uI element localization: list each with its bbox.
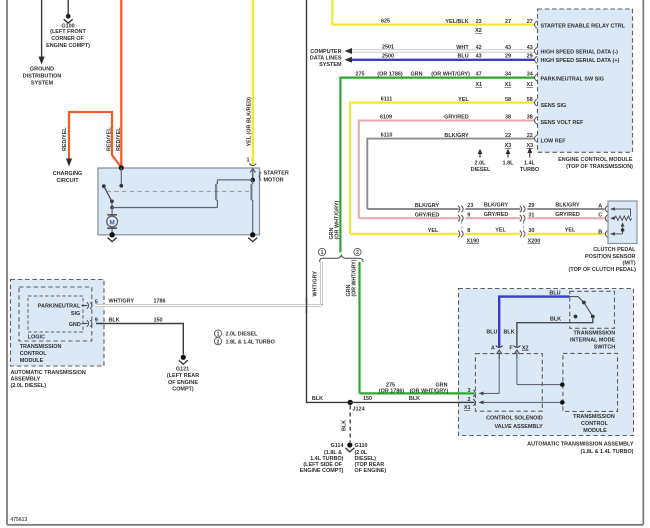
svg-text:X2: X2	[475, 28, 482, 34]
pin 3 connector	[467, 388, 475, 397]
svg-text:CHARGING: CHARGING	[53, 171, 83, 177]
svg-text:(LEFT REAR: (LEFT REAR	[167, 373, 199, 379]
wire GRY/RED mid	[466, 217, 521, 219]
svg-text:ENGINE COMPT): ENGINE COMPT)	[46, 43, 90, 49]
connector X200 pin 30	[520, 231, 525, 238]
pin 2 connector	[464, 397, 475, 411]
svg-text:2500: 2500	[382, 53, 394, 59]
solenoid mechanical dashed link	[107, 190, 250, 192]
svg-text:X2: X2	[522, 345, 529, 351]
svg-text:275: 275	[355, 72, 364, 78]
logic box	[28, 296, 83, 332]
connector fork pin 1	[249, 164, 256, 166]
svg-text:42: 42	[476, 45, 482, 51]
wire RED/YEL main vertical	[120, 0, 122, 168]
column marker arrow 1.4L TURBO	[520, 147, 539, 173]
svg-text:34: 34	[527, 72, 533, 78]
wire to G100	[67, 0, 69, 15]
svg-text:GRY/RED: GRY/RED	[484, 212, 509, 218]
ground G121	[179, 355, 188, 365]
control solenoid valve assembly box	[475, 354, 542, 412]
wire 275 GRN park/neutral sw sig	[340, 78, 535, 253]
svg-text:DATA LINES: DATA LINES	[310, 55, 342, 61]
svg-text:SENS SIG: SENS SIG	[541, 103, 567, 109]
svg-text:BLU: BLU	[458, 54, 469, 60]
label STARTER MOTOR	[259, 171, 289, 184]
svg-text:SIG: SIG	[71, 311, 80, 317]
starter switch blade	[102, 184, 114, 209]
connector arc row1	[535, 21, 538, 28]
svg-text:TURBO: TURBO	[520, 167, 539, 173]
svg-text:58: 58	[527, 97, 533, 103]
svg-text:(M/T): (M/T)	[623, 260, 636, 266]
connector X200 pin 31	[520, 215, 525, 222]
label G114	[300, 443, 344, 474]
svg-text:STARTER ENABLE RELAY CTRL: STARTER ENABLE RELAY CTRL	[541, 24, 626, 30]
solenoid internal wire pin2 to TCM	[479, 400, 565, 405]
ground at solenoid	[248, 232, 257, 242]
svg-text:YEL: YEL	[495, 228, 506, 234]
ECM box (ENGINE CONTROL MODULE)	[538, 9, 633, 152]
connector X190 pin 23	[458, 206, 463, 213]
connector X200 pin 29	[520, 206, 525, 213]
svg-text:27: 27	[527, 19, 533, 25]
svg-text:{: {	[259, 171, 262, 181]
connector arrow into starter pin 1	[250, 169, 255, 180]
svg-text:X3: X3	[505, 143, 512, 149]
wire 625 YEL/BLK starter enable	[332, 0, 535, 25]
svg-text:TRANSMISSION: TRANSMISSION	[573, 331, 615, 337]
connector X190 pin 8	[458, 231, 463, 238]
svg-text:TRANSMISSION: TRANSMISSION	[573, 414, 615, 420]
connector link dashed X200	[523, 222, 525, 231]
automatic transmission assembly (1.8L/1.4L) box	[459, 289, 634, 436]
svg-text:J124: J124	[353, 406, 365, 412]
wire YEL (OR BLK/RED) to starter	[252, 0, 254, 165]
wire GRN vertical below brace	[358, 262, 360, 393]
svg-text:STARTER: STARTER	[264, 171, 289, 177]
wire 6111 YEL sens sig	[350, 103, 535, 234]
node CHARGING CIRCUIT	[53, 171, 83, 184]
svg-text:A: A	[491, 346, 495, 352]
svg-text:G114: G114	[330, 443, 343, 449]
svg-text:VALVE ASSEMBLY: VALVE ASSEMBLY	[494, 424, 543, 430]
wire GRY/RED to pin C	[527, 217, 604, 219]
svg-text:BLU: BLU	[486, 330, 497, 336]
svg-text:COMPT): COMPT)	[172, 387, 194, 393]
pin 5 connector	[82, 300, 98, 309]
svg-text:23: 23	[476, 19, 482, 25]
wire 6109 GRY/RED sens volt ref	[359, 121, 535, 219]
svg-text:GRN: GRN	[410, 72, 422, 78]
svg-text:X200: X200	[528, 238, 541, 244]
svg-text:BLK/GRY: BLK/GRY	[415, 203, 440, 209]
connector X190 pin 9	[458, 215, 463, 222]
svg-text:1.8L: 1.8L	[503, 160, 515, 166]
svg-text:34: 34	[505, 72, 511, 78]
svg-text:(TOP OF TRANSMISSION): (TOP OF TRANSMISSION)	[566, 164, 633, 170]
wire BLU mode switch to pin A	[499, 297, 569, 348]
svg-text:CLUTCH PEDAL: CLUTCH PEDAL	[593, 247, 636, 253]
svg-text:625: 625	[381, 19, 390, 25]
svg-text:GROUND: GROUND	[30, 67, 54, 73]
wire to ground distribution system	[39, 0, 45, 65]
ground G114/G110	[345, 442, 354, 452]
svg-text:POSITION SENSOR: POSITION SENSOR	[585, 254, 636, 260]
wire 150 BLK J124 to pin 2	[350, 401, 474, 403]
svg-text:1.8L & 1.4L TURBO: 1.8L & 1.4L TURBO	[226, 339, 275, 345]
svg-text:TRANSMISSION: TRANSMISSION	[20, 344, 62, 350]
svg-text:ASSEMBLY: ASSEMBLY	[11, 376, 41, 382]
svg-text:6111: 6111	[381, 97, 393, 103]
svg-text:29: 29	[527, 54, 533, 60]
svg-text:BLK: BLK	[409, 396, 420, 402]
svg-text:C: C	[598, 213, 602, 219]
svg-text:BLK: BLK	[504, 330, 515, 336]
svg-text:OF ENGINE): OF ENGINE)	[355, 468, 387, 474]
svg-text:2: 2	[217, 339, 220, 345]
frame right border	[642, 0, 644, 525]
wire GRY/RED to clutch sensor	[359, 217, 459, 219]
svg-text:AUTOMATIC TRANSMISSION ASSEMBL: AUTOMATIC TRANSMISSION ASSEMBLY	[527, 442, 634, 448]
transmission control module box (2.0L)	[19, 287, 92, 341]
svg-text:DIESEL: DIESEL	[471, 167, 491, 173]
svg-text:M: M	[109, 219, 114, 226]
svg-text:RED/YEL: RED/YEL	[62, 127, 68, 151]
solenoid coil 1	[216, 180, 218, 208]
svg-text:CONTROL SOLENOID: CONTROL SOLENOID	[486, 416, 543, 422]
svg-text:(LEFT FRONT: (LEFT FRONT	[50, 29, 86, 35]
svg-text:BLK/GRY: BLK/GRY	[555, 203, 580, 209]
svg-text:SWITCH: SWITCH	[594, 344, 616, 350]
svg-text:WHT/GRY: WHT/GRY	[109, 298, 135, 304]
svg-text:MODULE: MODULE	[583, 428, 607, 434]
svg-text:22: 22	[527, 133, 533, 139]
svg-text:6110: 6110	[381, 133, 393, 139]
column marker arrow 1.8L	[503, 149, 515, 167]
solenoid internal wire from A	[479, 357, 500, 395]
wire 6110 BLK/GRY low ref	[367, 139, 535, 209]
svg-text:GRY/RED: GRY/RED	[415, 212, 440, 218]
transmission control module box (1.8L/1.4L)	[563, 353, 618, 411]
motor M symbol	[107, 208, 118, 235]
connector link dashed X190	[461, 222, 463, 231]
automatic transmission assembly (2.0L diesel) box	[11, 280, 105, 367]
svg-text:150: 150	[363, 396, 372, 402]
svg-text:SYSTEM: SYSTEM	[319, 62, 342, 68]
svg-text:38: 38	[505, 115, 511, 121]
wire BLK/GRY mid	[466, 208, 521, 210]
svg-text:(OR WHT/GRY): (OR WHT/GRY)	[410, 388, 449, 394]
svg-text:29: 29	[505, 54, 511, 60]
svg-text:YEL (OR BLK/RED): YEL (OR BLK/RED)	[247, 97, 253, 147]
label AUTOMATIC TRANSMISSION ASSEMBLY (2.0L DIESEL)	[11, 370, 86, 389]
svg-text:(OR 1786): (OR 1786)	[377, 72, 403, 78]
svg-text:(OR WHT/GRY): (OR WHT/GRY)	[431, 72, 470, 78]
svg-text:2: 2	[356, 250, 359, 256]
label TRANSMISSION CONTROL MODULE	[20, 344, 62, 364]
svg-text:BLK: BLK	[341, 420, 347, 431]
svg-text:2.0L: 2.0L	[475, 160, 487, 166]
junction red wire at starter box	[119, 165, 124, 170]
svg-text:X1: X1	[475, 82, 482, 88]
svg-text:G121: G121	[176, 366, 189, 372]
svg-text:YEL/BLK: YEL/BLK	[445, 19, 468, 25]
svg-text:CIRCUIT: CIRCUIT	[56, 178, 79, 184]
svg-text:1.4L: 1.4L	[524, 160, 536, 166]
pin A connector	[491, 346, 503, 360]
svg-text:2.0L DIESEL: 2.0L DIESEL	[226, 332, 259, 338]
column marker arrow 2.0L DIESEL	[471, 149, 491, 173]
svg-text:YEL: YEL	[565, 228, 576, 234]
svg-text:YEL: YEL	[428, 228, 439, 234]
wire 2501 WHT serial data -	[345, 48, 536, 54]
svg-text:DISTRIBUTION: DISTRIBUTION	[23, 74, 62, 80]
wire RED/YEL branch to charging circuit	[66, 112, 121, 168]
svg-text:6109: 6109	[380, 115, 392, 121]
wire 2500 BLU serial data +	[345, 57, 536, 63]
wire GRN overlay into pin 3	[458, 392, 474, 394]
node COMPUTER DATA LINES SYSTEM	[310, 49, 342, 68]
svg-text:WHT: WHT	[456, 45, 469, 51]
svg-text:58: 58	[505, 97, 511, 103]
svg-text:BLK: BLK	[550, 317, 561, 323]
svg-text:RED/YEL: RED/YEL	[116, 127, 122, 151]
legend 1: 2.0L diesel	[214, 330, 258, 338]
svg-text:INTERNAL MODE: INTERNAL MODE	[570, 338, 616, 344]
svg-text:43: 43	[505, 45, 511, 51]
label PARK/NEUTRAL SIG	[38, 304, 81, 317]
svg-text:ENGINE CONTROL MODULE: ENGINE CONTROL MODULE	[558, 157, 633, 163]
wire YEL mid	[466, 233, 521, 235]
svg-text:LOGIC: LOGIC	[28, 335, 45, 341]
svg-text:COMPUTER: COMPUTER	[310, 49, 341, 55]
marker circled 2	[354, 248, 361, 256]
svg-text:GRY/RED: GRY/RED	[444, 115, 469, 121]
wire WHT/GRY vertical below brace	[320, 262, 323, 306]
svg-text:150: 150	[153, 317, 162, 323]
wire GRN to pin 3	[360, 392, 475, 394]
wire BLK/GRY to pin A	[527, 208, 604, 210]
svg-text:1: 1	[246, 158, 249, 164]
svg-text:A: A	[598, 204, 602, 210]
frame left border	[6, 0, 8, 525]
svg-text:BLK: BLK	[312, 396, 323, 402]
wire BLK overlay into pin 2	[458, 401, 474, 403]
wire WHT/GRY 1786	[96, 304, 322, 307]
svg-text:(OR WHT/GRY): (OR WHT/GRY)	[352, 259, 358, 296]
solenoid internal wire from F to TCM	[517, 357, 565, 387]
svg-text:2501: 2501	[382, 45, 394, 51]
wire BLK from top to J124	[307, 0, 348, 402]
svg-text:AUTOMATIC TRANSMISSION: AUTOMATIC TRANSMISSION	[11, 370, 86, 376]
svg-text:WHT/GRY: WHT/GRY	[313, 271, 319, 297]
svg-text:X1: X1	[526, 82, 533, 88]
pin F connector	[509, 345, 528, 359]
svg-text:HIGH SPEED SERIAL DATA (-): HIGH SPEED SERIAL DATA (-)	[541, 49, 619, 55]
svg-text:X1: X1	[505, 82, 512, 88]
svg-text:G110: G110	[355, 443, 368, 449]
starter switch contact from supply	[119, 168, 123, 188]
svg-text:475613: 475613	[11, 517, 28, 523]
svg-text:CORNER OF: CORNER OF	[51, 36, 84, 42]
starter motor box	[98, 168, 260, 235]
svg-text:2: 2	[467, 397, 470, 403]
svg-text:SYSTEM: SYSTEM	[31, 81, 54, 87]
svg-text:YEL: YEL	[458, 97, 469, 103]
svg-text:38: 38	[527, 115, 533, 121]
wire BLK dashed J124 to ground	[349, 406, 351, 443]
svg-text:1: 1	[321, 250, 324, 256]
svg-text:SENS VOLT REF: SENS VOLT REF	[541, 120, 584, 126]
svg-text:43: 43	[476, 54, 482, 60]
svg-text:RED/YEL: RED/YEL	[107, 127, 113, 151]
label G110	[355, 443, 387, 474]
potentiometer inside sensor	[610, 207, 632, 236]
wire BLK 150 to G121	[96, 324, 183, 355]
svg-text:PARK/NEUTRAL SW SIG: PARK/NEUTRAL SW SIG	[541, 76, 605, 82]
svg-text:47: 47	[476, 72, 482, 78]
svg-text:PARK/NEUTRAL: PARK/NEUTRAL	[38, 304, 81, 310]
ground G100	[46, 14, 90, 49]
svg-text:CONTROL: CONTROL	[20, 351, 48, 357]
junction J124	[348, 400, 365, 413]
svg-text:(OR 1786): (OR 1786)	[379, 388, 405, 394]
svg-text:BLK/GRY: BLK/GRY	[484, 203, 509, 209]
svg-text:27: 27	[505, 19, 511, 25]
svg-text:LOW REF: LOW REF	[541, 139, 567, 145]
transmission internal mode switch box	[570, 291, 615, 328]
svg-text:GND: GND	[69, 322, 81, 328]
svg-text:1: 1	[217, 332, 220, 338]
marker circled 1	[318, 248, 325, 256]
brace split (1)/(2)	[320, 255, 364, 262]
svg-text:MOTOR: MOTOR	[264, 178, 284, 184]
mode switch contacts	[570, 297, 595, 319]
wire BLK mode switch to pin F	[517, 317, 593, 348]
wire BLK/GRY to clutch sensor	[367, 208, 458, 210]
svg-text:BLU: BLU	[549, 291, 560, 297]
svg-text:BLK: BLK	[109, 317, 120, 323]
frame bottom border	[7, 524, 643, 526]
svg-text:X190: X190	[467, 238, 480, 244]
svg-text:43: 43	[527, 45, 533, 51]
svg-text:OF ENGINE: OF ENGINE	[168, 380, 198, 386]
wire coil1 to switch	[112, 207, 217, 209]
svg-text:ENGINE COMPT): ENGINE COMPT)	[300, 468, 344, 474]
svg-text:X1: X1	[464, 405, 471, 411]
node GROUND DISTRIBUTION SYSTEM	[23, 67, 62, 87]
label CLUTCH PEDAL POSITION SENSOR	[569, 247, 637, 273]
solenoid coil 2	[251, 180, 253, 235]
clutch pedal position sensor box	[608, 201, 637, 244]
svg-text:(OR WHT/GRY): (OR WHT/GRY)	[334, 201, 340, 240]
wire YEL to pin B	[527, 233, 604, 235]
svg-text:3: 3	[467, 388, 470, 394]
legend 2: 1.8L and 1.4L turbo	[214, 338, 274, 346]
svg-text:CONTROL: CONTROL	[581, 421, 609, 427]
pin 9 connector	[82, 318, 98, 327]
svg-text:HIGH SPEED SERIAL DATA (+): HIGH SPEED SERIAL DATA (+)	[541, 58, 620, 64]
svg-text:22: 22	[505, 133, 511, 139]
svg-text:B: B	[598, 229, 602, 235]
ground at motor	[108, 232, 117, 242]
solenoid coil wiring top	[217, 168, 255, 182]
svg-text:GRY/RED: GRY/RED	[555, 212, 580, 218]
svg-text:(TOP OF CLUTCH PEDAL): (TOP OF CLUTCH PEDAL)	[569, 267, 637, 273]
wire YEL to clutch sensor	[350, 233, 459, 235]
svg-text:BLK/GRY: BLK/GRY	[444, 133, 469, 139]
svg-text:(1.8L & 1.4L TURBO): (1.8L & 1.4L TURBO)	[581, 449, 634, 455]
svg-text:1786: 1786	[153, 298, 165, 304]
svg-text:(2.0L DIESEL): (2.0L DIESEL)	[11, 383, 47, 389]
svg-text:MODULE: MODULE	[20, 358, 44, 364]
